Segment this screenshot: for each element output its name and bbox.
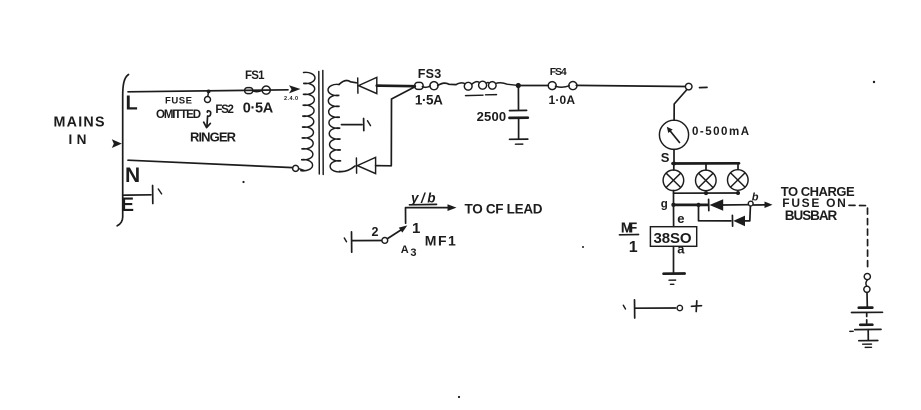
inductor L1 smoothing choke [456,83,464,85]
meter M1 [659,120,688,149]
bus g thick segment [675,204,708,207]
svg-text:FS1: FS1 [245,70,265,82]
svg-text:L: L [126,93,138,115]
node b [748,201,753,206]
lamp rail bottom [674,192,739,194]
svg-text:38SO: 38SO [654,230,692,247]
arrowhead into transformer primary [289,85,301,93]
arrow from MAINS IN to bracket [112,139,122,148]
earth terminal E [123,194,151,196]
svg-text:2.4.0: 2.4.0 [284,96,298,102]
diode D2 [355,158,357,173]
wire cell to ground [673,246,675,273]
ground below C1 [518,118,520,139]
terminal + output [623,305,625,309]
wire junction to FS4 [518,85,548,87]
svg-text:IN: IN [69,132,87,147]
svg-text:b: b [752,192,759,204]
capacitor C1 plates [510,109,527,111]
svg-text:A: A [401,244,409,256]
stub terminal to primary bottom [299,169,305,171]
transformer T1 primary winding [301,72,315,170]
svg-text:g: g [661,198,668,210]
node g junction [671,203,675,207]
lamp rail top [673,162,740,165]
wire to switch pivot [352,240,381,242]
fuse FS3 [415,82,423,89]
speck [873,81,875,83]
branch wire g to D4 [699,205,731,221]
svg-text:FUSE: FUSE [165,96,192,107]
speck [582,246,584,248]
svg-text:FS4: FS4 [550,66,567,78]
wire FS3 to choke [438,83,456,85]
wire terminal down to meter [674,90,686,120]
svg-text:2: 2 [372,225,379,239]
svg-text:N: N [125,164,140,187]
diode D1 [357,78,359,93]
choke underline (core bars) [466,94,484,96]
branch wire D4 up to b [745,206,750,221]
svg-text:E: E [121,194,134,216]
diode D3 [708,199,710,210]
svg-text:e: e [677,211,684,226]
svg-text:1: 1 [629,239,638,256]
wire FS4 to open terminal [576,85,685,86]
svg-text:0·5A: 0·5A [243,101,274,117]
svg-text:1·5A: 1·5A [415,92,443,107]
wire g down to cell [673,205,675,227]
fuse on busbar [864,274,870,280]
diode D4 [731,215,733,226]
chassis tick at switch [344,238,346,242]
wire secondary top lead [339,80,357,84]
cell MF1 box [650,227,696,247]
wire D2 up to FS3 [376,87,415,166]
wire meter to lamp rail [673,149,675,163]
fuse FS2 terminal (fuse omitted) [205,97,211,103]
primary bottom terminal [293,165,299,171]
battery B1 cell 1 [859,306,873,309]
node FS2 tap junction [207,90,211,94]
transformer T1 secondary winding [328,84,341,172]
svg-text:FS2: FS2 [215,104,234,116]
wire contact 1 up and right [406,208,450,224]
transformer T1 core [318,72,321,175]
mains input bracket [117,75,128,226]
svg-text:RINGER: RINGER [190,130,237,145]
svg-text:BUSBAR: BUSBAR [785,208,838,223]
label + [692,301,702,312]
lamp LP3 [737,163,739,169]
wire secondary bottom lead [340,166,356,172]
secondary centre tap to chassis [342,124,363,126]
switch MF1 blade [388,229,404,239]
wire N (neutral) [128,160,293,167]
svg-text:MAINS: MAINS [54,115,105,131]
wire D1 to FS3 [377,84,415,87]
svg-text:0-500mA: 0-500mA [692,126,749,138]
svg-text:a: a [677,241,685,256]
svg-text:MF1: MF1 [425,233,456,249]
svg-text:2500: 2500 [477,109,507,124]
svg-text:1: 1 [412,220,420,237]
fuse FS1 [245,88,253,94]
wire fuse to battery [866,292,868,306]
switch MF1 pivot [382,238,388,244]
node choke/capacitor junction [516,83,521,88]
svg-text:y/b: y/b [410,190,436,205]
arrow down to RINGER [207,91,210,96]
lamp LP1 [673,164,675,171]
svg-text:S: S [661,150,670,165]
fuse FS4 [548,82,556,90]
svg-text:TO CF LEAD: TO CF LEAD [465,202,543,217]
lamp LP2 [705,163,707,169]
ground below battery [867,330,869,341]
speck [242,181,244,183]
speck [458,396,460,398]
wire D3 to node b [723,204,748,206]
dashed wire to busbar battery [849,205,868,267]
ground below cell [664,272,685,275]
svg-text:FS3: FS3 [418,67,442,81]
node branch junction [696,203,700,207]
arrow to charge fuse [754,204,768,206]
battery B1 cell 2 [860,323,872,326]
wire lamp rail to node g [673,191,675,206]
wire L (live) [128,90,288,92]
svg-text:1·0A: 1·0A [549,93,576,107]
svg-text:OMITTED: OMITTED [156,109,201,121]
capacitor C1 lead [517,86,519,110]
open terminal (switch contact) [685,83,692,90]
svg-text:3: 3 [410,247,416,259]
